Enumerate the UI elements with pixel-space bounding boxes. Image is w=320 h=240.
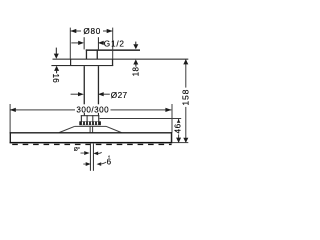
cone right slope — [106, 126, 122, 132]
cone left slope — [59, 126, 75, 132]
G1/2 pipe stub above ceiling — [86, 49, 98, 59]
svg-text:G1/2: G1/2 — [104, 39, 125, 48]
pipe stubs above nut — [84, 113, 99, 116]
spray nozzles dashed row — [12, 144, 171, 145]
svg-text:158: 158 — [180, 89, 190, 106]
dimension 18 (top arrows) — [132, 42, 141, 77]
svg-text:300/300: 300/300 — [76, 105, 109, 114]
ceiling escutcheon flange — [51, 59, 113, 66]
svg-text:°: ° — [78, 147, 80, 153]
knurled ring — [79, 121, 101, 125]
dimension G1/2 — [71, 37, 124, 49]
connector nut — [81, 115, 100, 121]
svg-text:Ø27: Ø27 — [111, 91, 128, 100]
dimension 16 (left arrows) — [51, 48, 60, 84]
dimension Ø27 — [71, 91, 128, 100]
small callout bottom (6 deg) — [83, 155, 111, 166]
cone top plateau — [75, 125, 106, 128]
ceiling reference line — [53, 59, 189, 60]
svg-text:46: 46 — [174, 123, 183, 133]
svg-text:Ø80: Ø80 — [83, 27, 101, 36]
connection pipe Ø27 — [84, 66, 100, 104]
small callout top (left label) — [74, 147, 102, 155]
stub top reference line — [86, 49, 140, 51]
dimension 300/300 — [10, 104, 173, 133]
pin inside cone — [90, 126, 94, 132]
head bottom extension line — [172, 142, 188, 143]
shower head plate — [10, 132, 173, 143]
svg-text:18: 18 — [132, 67, 141, 77]
outlet pin below head — [90, 144, 94, 171]
svg-text:16: 16 — [51, 73, 60, 83]
svg-text:°: ° — [108, 155, 110, 161]
dimension 158 (right) — [180, 59, 190, 143]
dimension 46 (right of head) — [100, 118, 183, 143]
dimension Ø80 — [70, 27, 113, 59]
